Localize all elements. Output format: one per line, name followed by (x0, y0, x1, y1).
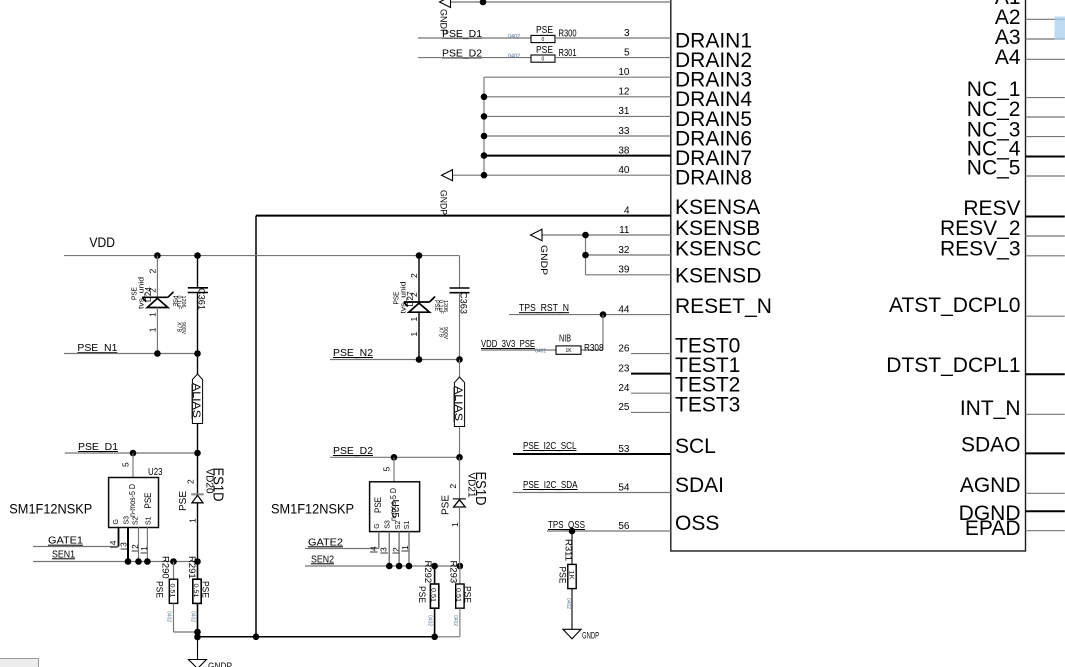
pin ATST_DCPL0 (1026, 315, 1065, 317)
wire PSE_I2C_SCL pin 53 (highlighted) (513, 453, 671, 455)
pin DGND (1026, 510, 1065, 512)
wire PSE_D2 to R301 (418, 57, 531, 59)
wire PSE_I2C_SDA pin 54 (513, 492, 671, 494)
svg-text:VDD_3V3_PSE: VDD_3V3_PSE (481, 339, 535, 350)
svg-text:32: 32 (618, 245, 630, 256)
wire DRAIN3 pin 10 (484, 76, 671, 78)
net alias flag ALIAS circuit1 (192, 374, 202, 424)
pin NC_4 (1026, 156, 1065, 158)
svg-text:3: 3 (624, 28, 630, 39)
svg-text:DRAIN8: DRAIN8 (675, 167, 752, 190)
svg-text:PSE_N2: PSE_N2 (333, 348, 373, 359)
svg-text:0402: 0402 (508, 54, 520, 60)
wire VDD corner down to C363 (459, 256, 461, 288)
svg-text:S1: S1 (146, 516, 153, 525)
svg-text:33: 33 (618, 126, 630, 137)
node junction top GNDP (480, 0, 487, 5)
node junctions ground rail (253, 634, 260, 641)
ground GNDP bottom (189, 660, 207, 667)
svg-text:1: 1 (188, 518, 198, 523)
pin A2 (1026, 18, 1065, 20)
wire PSE_N1 down to alias flag (197, 354, 199, 375)
svg-text:NC_5: NC_5 (967, 157, 1021, 180)
svg-text:2: 2 (409, 273, 419, 278)
wire SEN2 (305, 565, 460, 567)
svg-text:900V: 900V (180, 322, 186, 335)
wire U23 S1 (146, 528, 148, 562)
ground GNDP arrow top-left (440, 0, 451, 8)
svg-text:900V: 900V (442, 327, 448, 340)
wire R308 to reset (602, 315, 604, 350)
svg-text:0402: 0402 (535, 348, 546, 354)
wire TEST3 pin 25 stub (631, 411, 671, 413)
svg-text:ES1D: ES1D (210, 468, 227, 502)
node junctions PSE_N1 (154, 350, 161, 357)
svg-text:R308: R308 (584, 343, 604, 354)
wire PSE_N1 (64, 353, 198, 355)
wire ksens vertical tie (585, 235, 587, 275)
pin RESV (1026, 216, 1065, 218)
svg-text:TPS_OSS: TPS_OSS (548, 520, 585, 531)
resistor R293 (459, 566, 461, 584)
svg-text:1206: 1206 (442, 300, 448, 312)
wire TEST1 pin 23 stub (highlighted) (631, 373, 671, 375)
svg-text:KSENSC: KSENSC (675, 238, 761, 261)
pin NC_1 (1026, 97, 1065, 99)
svg-text:A4: A4 (995, 46, 1021, 69)
svg-text:12: 12 (618, 87, 630, 98)
svg-text:3: 3 (379, 547, 389, 552)
svg-text:1206: 1206 (180, 296, 186, 308)
svg-text:1: 1 (409, 317, 419, 322)
wire R311 top (571, 531, 573, 564)
wire TPS_OSS pin 56 (547, 530, 671, 532)
wire U23 S3 (highlighted) (127, 528, 129, 562)
svg-text:C363: C363 (458, 292, 469, 314)
wire KSENSC pin 32 (586, 254, 671, 256)
pin A4 (1026, 58, 1065, 60)
wire PSE_N2 down to alias flag (459, 360, 461, 378)
pin EPAD (1026, 530, 1065, 532)
wire TEST2 pin 24 stub (631, 392, 671, 394)
svg-text:5: 5 (121, 462, 131, 467)
svg-text:TPS_RST_N: TPS_RST_N (519, 303, 569, 314)
wire TEST0 pin 26 stub (631, 353, 671, 355)
svg-text:AGND: AGND (960, 474, 1021, 497)
svg-text:ATST_DCPL0: ATST_DCPL0 (889, 294, 1021, 317)
resistor R292 (highlighted branch) (434, 566, 436, 584)
wire alias flag down to PSE_D2 (459, 427, 461, 458)
svg-text:54: 54 (618, 482, 630, 493)
wire down to GNDP symbol (197, 637, 199, 660)
svg-text:40: 40 (618, 165, 630, 176)
svg-text:GNDP: GNDP (208, 661, 232, 667)
svg-text:PSE: PSE (143, 493, 154, 509)
svg-text:RESET_N: RESET_N (675, 295, 772, 318)
capacitor C361 (197, 256, 199, 288)
svg-text:SM1F12NSKP: SM1F12NSKP (271, 501, 354, 517)
wire KSENSA vertical down to ground rail (255, 216, 257, 637)
svg-text:0.51: 0.51 (168, 584, 174, 599)
svg-text:2: 2 (186, 479, 196, 484)
svg-text:SM1F12NSKP: SM1F12NSKP (9, 501, 92, 517)
svg-text:PSE: PSE (200, 581, 211, 598)
node junctions R290/R291 bottom (194, 629, 201, 636)
svg-text:KSENSA: KSENSA (675, 196, 760, 219)
svg-text:23: 23 (618, 363, 630, 374)
node junctions on VDD rail (154, 252, 161, 259)
transistor U25 SM1F12NSKP (370, 482, 420, 532)
node junctions SEN1 (125, 558, 132, 565)
wire DRAIN7 pin 38 (highlighted) (484, 155, 671, 157)
wire DRAIN6 pin 33 (484, 135, 671, 137)
wire U25 S2 (398, 532, 400, 566)
svg-text:GNDP: GNDP (582, 631, 599, 642)
pin A3 (1026, 38, 1065, 40)
svg-text:PSE_I2C_SDA: PSE_I2C_SDA (523, 480, 578, 491)
wire drain bus vertical (483, 77, 485, 175)
wire PSE_D1 to R300 (418, 37, 531, 39)
svg-text:R291: R291 (186, 556, 197, 579)
svg-text:S2: S2 (132, 516, 139, 525)
svg-text:0402: 0402 (190, 611, 196, 622)
wire ground rail (highlighted) (198, 636, 435, 638)
svg-text:G: G (374, 523, 381, 528)
ground GNDP arrow ksens (531, 229, 543, 240)
wire SEN1 (33, 561, 198, 563)
wire KSENSD pin 39 (586, 274, 671, 276)
svg-text:EPAD: EPAD (965, 517, 1021, 540)
transistor U23 SM1F12NSKP (109, 478, 159, 528)
svg-text:SCL: SCL (675, 435, 716, 458)
node junctions ksens (582, 232, 589, 239)
wire TPS_RST_N pin 44 (509, 314, 671, 316)
svg-text:PSE: PSE (557, 567, 568, 584)
wire VDD rail (64, 255, 460, 257)
svg-text:0.51: 0.51 (429, 588, 435, 603)
wire VDD_3V3_PSE to R308 (481, 349, 556, 351)
svg-text:38: 38 (618, 145, 630, 156)
svg-text:INT_N: INT_N (960, 397, 1021, 420)
svg-text:10: 10 (618, 67, 630, 78)
svg-text:26: 26 (618, 343, 630, 354)
svg-text:PSE: PSE (536, 25, 553, 36)
svg-text:0: 0 (542, 37, 545, 43)
svg-text:NIB: NIB (559, 334, 571, 345)
svg-text:SDAO: SDAO (961, 433, 1021, 456)
wire alias flag down to PSE_D1 (197, 424, 199, 454)
svg-text:KSENSB: KSENSB (675, 217, 760, 240)
svg-text:PSE: PSE (416, 586, 427, 603)
svg-text:C361: C361 (196, 288, 207, 310)
svg-text:39: 39 (618, 265, 630, 276)
svg-text:RESV_3: RESV_3 (940, 237, 1021, 260)
resistor R291 (highlighted branch) (197, 562, 199, 580)
node junctions PSE_D2 lower (391, 454, 398, 461)
svg-text:0402: 0402 (508, 34, 520, 40)
node junctions PSE_D1 lower (130, 450, 137, 457)
svg-text:ES1D: ES1D (472, 472, 489, 506)
svg-text:DTST_DCPL1: DTST_DCPL1 (886, 354, 1020, 377)
svg-text:PSE: PSE (441, 495, 452, 515)
svg-text:PSE: PSE (131, 287, 138, 300)
capacitor C363 (450, 287, 470, 289)
svg-text:PSE: PSE (536, 45, 553, 56)
svg-text:PSE_D2: PSE_D2 (333, 446, 373, 457)
svg-text:S1: S1 (404, 521, 411, 530)
svg-text:44: 44 (618, 304, 630, 315)
svg-text:2: 2 (148, 269, 158, 274)
svg-text:0402: 0402 (565, 598, 571, 609)
svg-text:2: 2 (409, 292, 419, 297)
wire DRAIN4 pin 12 (484, 96, 671, 98)
svg-text:56: 56 (618, 521, 630, 532)
svg-text:PSE_I2C_SCL: PSE_I2C_SCL (523, 441, 577, 452)
wire R300 to pin 3 (555, 37, 671, 39)
svg-text:1: 1 (148, 312, 158, 317)
svg-text:SEN1: SEN1 (52, 549, 75, 560)
svg-text:PSE: PSE (393, 291, 400, 304)
svg-text:S3: S3 (124, 516, 131, 525)
svg-text:4: 4 (369, 546, 379, 551)
tvs diode D27 (418, 256, 420, 302)
wire U25 pin 5 (393, 457, 395, 482)
svg-text:GNDP: GNDP (538, 245, 549, 275)
svg-text:VDD: VDD (89, 234, 115, 250)
node junction TPS_OSS / R311 (569, 528, 576, 535)
pin RESV_2 (1026, 235, 1065, 237)
wire DRAIN8 pin 40 (452, 174, 671, 176)
svg-text:0402: 0402 (166, 611, 172, 622)
wire DRAIN5 pin 31 (484, 115, 671, 117)
svg-text:PSE: PSE (154, 581, 165, 598)
pin NC_5 (1026, 175, 1065, 177)
ground GNDP below R311 (563, 629, 581, 639)
svg-text:1K: 1K (568, 571, 574, 580)
svg-text:GNDP: GNDP (438, 190, 449, 215)
svg-text:G: G (113, 519, 120, 524)
svg-text:R292: R292 (422, 561, 433, 584)
net alias flag ALIAS circuit2 (454, 377, 464, 427)
svg-text:R290: R290 (160, 556, 171, 579)
wire GATE1 to U23 gate (33, 546, 119, 548)
svg-text:1: 1 (409, 332, 419, 337)
svg-text:KSENSD: KSENSD (675, 265, 761, 288)
svg-text:GATE2: GATE2 (308, 537, 343, 548)
svg-text:1K: 1K (566, 348, 573, 354)
wire U23 S2 (138, 528, 140, 562)
svg-text:2: 2 (148, 288, 158, 293)
svg-text:5: 5 (624, 47, 630, 58)
svg-text:2: 2 (448, 484, 458, 489)
svg-text:n-mos-5 D: n-mos-5 D (128, 484, 137, 517)
svg-text:U23: U23 (148, 467, 163, 478)
svg-text:11: 11 (619, 225, 630, 236)
pin SDAO (1026, 452, 1065, 454)
svg-text:4: 4 (108, 540, 118, 545)
svg-text:0402: 0402 (452, 615, 458, 626)
wire U23 pin 5 (132, 453, 134, 478)
svg-text:S2: S2 (395, 521, 402, 530)
node junctions PSE_N2 (416, 356, 423, 363)
svg-text:PSE: PSE (462, 586, 473, 603)
svg-text:SEN2: SEN2 (311, 554, 334, 565)
wire PSE_N2 (330, 359, 460, 361)
pin DTST_DCPL1 (1026, 373, 1065, 375)
wire R311 bottom (571, 589, 573, 630)
wire U25 S3 (388, 532, 390, 566)
node junctions drain bus (481, 94, 488, 101)
svg-text:R293: R293 (448, 561, 459, 584)
wire GATE2 to U25 gate (305, 548, 379, 550)
svg-text:n-mos-5 D: n-mos-5 D (389, 488, 398, 521)
tvs diode D24 (156, 256, 158, 297)
svg-text:SDAI: SDAI (675, 474, 724, 497)
node junctions SEN2 (386, 563, 393, 570)
IC U? main device body (top edge above viewport) (671, 0, 1026, 551)
pin NC_2 (1026, 116, 1065, 118)
svg-text:OSS: OSS (675, 512, 719, 535)
svg-text:GATE1: GATE1 (48, 536, 83, 547)
svg-text:S3: S3 (385, 520, 392, 529)
svg-text:0402: 0402 (427, 615, 433, 626)
ground GNDP arrow drain bus (442, 170, 453, 181)
svg-text:24: 24 (618, 383, 630, 394)
resistor R301 (531, 55, 555, 62)
svg-text:PSE: PSE (178, 491, 189, 511)
svg-text:1: 1 (148, 327, 158, 332)
svg-text:53: 53 (618, 444, 630, 455)
node junction reset/R308 (600, 311, 607, 318)
pin RESV_3 (1026, 255, 1065, 257)
resistor R300 (531, 35, 555, 42)
wire GNDP net top (450, 1, 671, 3)
svg-text:4: 4 (624, 205, 630, 216)
svg-text:0.51: 0.51 (455, 588, 461, 603)
svg-text:25: 25 (618, 402, 630, 413)
wire ground rail gray part (435, 636, 460, 638)
wire KSENSA pin 4 (highlighted net) (256, 215, 671, 217)
svg-text:PSE_N1: PSE_N1 (77, 343, 117, 354)
svg-text:1: 1 (450, 522, 460, 527)
svg-text:0.51: 0.51 (192, 584, 198, 599)
pin INT_N (1026, 413, 1065, 415)
wire PSE_D1 lower (65, 452, 198, 454)
svg-text:PSE: PSE (373, 497, 384, 513)
tooltip overlay box bottom-left (0, 659, 39, 667)
wire R301 to pin 5 (555, 57, 671, 59)
svg-text:5: 5 (382, 467, 392, 472)
resistor R290 (173, 562, 175, 580)
svg-text:0: 0 (542, 56, 545, 62)
wire U25 S1 (408, 532, 410, 566)
selection highlight box top-right (1055, 17, 1065, 40)
svg-text:PSE_D1: PSE_D1 (78, 442, 118, 453)
wire KSENSB pin 11 (543, 234, 671, 236)
svg-text:R311: R311 (563, 539, 574, 561)
wire PSE_D2 lower (330, 456, 460, 458)
pin NC_3 (1026, 136, 1065, 138)
svg-text:31: 31 (618, 106, 630, 117)
pin AGND (1026, 492, 1065, 494)
svg-text:TEST3: TEST3 (675, 393, 740, 416)
resistor R308 (556, 346, 581, 354)
